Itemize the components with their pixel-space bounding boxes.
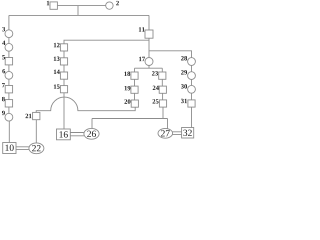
wire 4-5 xyxy=(8,51,10,57)
wire drop to 18 xyxy=(134,68,136,72)
ellipse person 22 xyxy=(29,143,44,154)
wire drop to 23 xyxy=(161,68,163,72)
circle person 2 xyxy=(106,2,113,9)
label 22 xyxy=(32,145,40,151)
branch line 11 to 12 xyxy=(64,40,149,44)
branch line 11 to 28 xyxy=(149,51,192,58)
wire 12-13 xyxy=(63,51,65,58)
square person 19 xyxy=(131,86,138,93)
wire 13-14 xyxy=(63,65,65,72)
label 16 xyxy=(60,131,68,137)
circle person 17 xyxy=(145,58,153,66)
label 8 xyxy=(2,97,5,101)
circle person 30 xyxy=(188,85,196,93)
circle person 6 xyxy=(5,71,13,79)
label 15 xyxy=(54,84,60,88)
wire 6-7 xyxy=(8,79,10,85)
square person 21 xyxy=(33,112,40,119)
box person 10 xyxy=(3,143,16,154)
label 21 xyxy=(26,114,32,118)
circle person 29 xyxy=(188,72,196,80)
square person 23 xyxy=(159,72,166,79)
square person 31 xyxy=(188,100,195,107)
label 1 xyxy=(47,1,49,5)
ellipse person 27 xyxy=(158,128,173,138)
wire 9-10 xyxy=(8,121,10,142)
label 30 xyxy=(181,84,187,88)
square person 24 xyxy=(159,86,166,93)
wire 7-8 xyxy=(8,93,10,100)
wire 31-32 xyxy=(191,107,193,128)
label 4 xyxy=(2,41,5,45)
label 14 xyxy=(54,70,60,74)
wire drop to 26 xyxy=(91,119,93,129)
square person 14 xyxy=(60,72,67,79)
label 6 xyxy=(2,69,5,73)
wire 23-24 xyxy=(161,79,163,86)
circle person 3 xyxy=(5,30,13,38)
label 7 xyxy=(2,83,5,87)
label 17 xyxy=(139,57,145,61)
consanguinity double line 16-26 xyxy=(70,133,84,136)
wire 11-17 xyxy=(148,38,150,57)
label 23 xyxy=(152,71,158,75)
wire 8-9 xyxy=(8,107,10,113)
label 3 xyxy=(2,27,5,31)
circle person 9 xyxy=(5,113,13,121)
square person 12 xyxy=(60,44,67,51)
label 13 xyxy=(54,57,60,61)
marriage line 1-2 xyxy=(57,5,105,7)
wire 29-30 xyxy=(191,80,193,86)
children line of 25 xyxy=(92,118,168,120)
wire 19-20 xyxy=(134,93,136,100)
square person 5 xyxy=(5,58,12,65)
wire 28-29 xyxy=(191,65,193,71)
label 19 xyxy=(125,86,131,90)
wire drop to 27 xyxy=(167,119,169,129)
label 28 xyxy=(181,56,187,60)
wire 15-16 long xyxy=(63,93,65,129)
square person 25 xyxy=(159,100,166,107)
square person 13 xyxy=(60,58,67,65)
label 12 xyxy=(54,43,60,47)
descent drop from couple 1-2 xyxy=(77,6,79,16)
label 5 xyxy=(2,55,5,59)
label 31 xyxy=(181,99,187,103)
wire sibling drop to 11 xyxy=(148,15,150,30)
label 26 xyxy=(87,131,96,137)
label 27 xyxy=(161,130,170,136)
square person 18 xyxy=(131,72,138,79)
box person 16 xyxy=(57,129,71,140)
label 20 xyxy=(124,99,130,103)
consanguinity double line 27-32 xyxy=(173,132,182,135)
square person 1 xyxy=(50,2,57,9)
wire 18-19 xyxy=(134,79,136,86)
ellipse person 26 xyxy=(84,128,99,139)
label 9 xyxy=(2,111,5,115)
wire 17 descent xyxy=(148,66,150,69)
wire 30-31 xyxy=(191,93,193,100)
circle person 28 xyxy=(188,58,196,66)
square person 7 xyxy=(5,86,12,93)
square person 20 xyxy=(131,100,138,107)
consanguinity double line 10-22 xyxy=(16,147,29,150)
square person 11 xyxy=(145,30,153,38)
sibling line generation II xyxy=(9,14,149,16)
label 25 xyxy=(153,99,159,103)
label 18 xyxy=(124,72,130,76)
label 24 xyxy=(153,86,159,90)
box person 32 xyxy=(182,128,194,139)
label 10 xyxy=(5,145,13,151)
wire 24-25 xyxy=(162,93,164,100)
circle person 4 xyxy=(5,43,13,51)
children line of 17 xyxy=(135,67,163,69)
label 32 xyxy=(183,130,191,136)
wire 5-6 xyxy=(8,65,10,72)
label 11 xyxy=(139,27,145,31)
wire sibling drop to 3 xyxy=(8,15,10,29)
label 2 xyxy=(116,1,119,5)
wire 21-22 xyxy=(35,120,37,143)
wire 14-15 xyxy=(63,79,65,85)
line 20 to 21 with bridge arc over 15-16 wire xyxy=(36,97,135,112)
square person 15 xyxy=(60,86,67,93)
wire 3-4 xyxy=(8,38,10,44)
wire 25 descent xyxy=(162,107,164,118)
label 29 xyxy=(181,70,187,74)
square person 8 xyxy=(5,100,12,107)
